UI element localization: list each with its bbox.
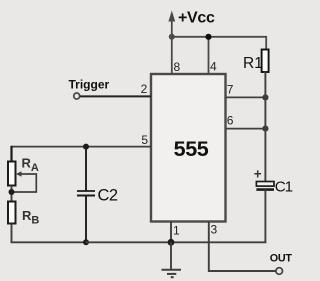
wire pin 5 rail (left rail top to IC) bbox=[12, 146, 152, 148]
wire left rail (pin5 corner to RA) bbox=[10, 146, 12, 162]
wire left rail (RA to RB) bbox=[11, 186, 13, 202]
terminal OUT bbox=[276, 268, 283, 275]
ground bbox=[162, 242, 182, 277]
junction dot pin 6 bbox=[262, 126, 268, 132]
svg-text:4: 4 bbox=[210, 60, 217, 74]
svg-text:7: 7 bbox=[227, 83, 234, 97]
wire Vcc horizontal to R1 bbox=[172, 37, 266, 50]
svg-text:Trigger: Trigger bbox=[69, 78, 110, 92]
svg-text:+: + bbox=[254, 167, 262, 182]
junction dot Vcc/pin8 bbox=[169, 34, 175, 40]
terminal Trigger bbox=[74, 93, 80, 99]
wire pin 2 (Trigger to IC) bbox=[80, 95, 151, 97]
wire right rail (C1 to ground rail) bbox=[264, 190, 266, 243]
svg-text:6: 6 bbox=[227, 114, 234, 128]
resistor RA (potentiometer) bbox=[8, 162, 16, 186]
power +Vcc terminal bbox=[168, 11, 175, 38]
wire pin 3 to OUT bbox=[209, 222, 276, 272]
svg-text:1: 1 bbox=[173, 224, 180, 238]
capacitor C2 bbox=[77, 191, 95, 196]
capacitor C1 (polarized) bbox=[254, 167, 274, 190]
wire right rail (R1 to C1) bbox=[264, 72, 266, 182]
svg-text:5: 5 bbox=[141, 133, 148, 147]
wiper arrow RA bbox=[13, 171, 36, 192]
svg-text:+Vcc: +Vcc bbox=[178, 9, 215, 26]
wire C2 branch bottom bbox=[85, 196, 87, 243]
resistor R1 bbox=[262, 50, 269, 73]
svg-text:C1: C1 bbox=[275, 179, 293, 196]
svg-text:555: 555 bbox=[174, 137, 209, 161]
svg-text:8: 8 bbox=[174, 60, 181, 74]
junction dot RA wiper / RB bbox=[9, 189, 15, 195]
svg-text:C2: C2 bbox=[98, 186, 118, 204]
svg-text:R1: R1 bbox=[243, 55, 263, 72]
wire pin 8 (Vcc to IC) bbox=[171, 37, 173, 74]
svg-text:3: 3 bbox=[211, 223, 218, 237]
junction dot pin 7 bbox=[262, 94, 268, 100]
wire pin 4 (Vcc to IC) bbox=[208, 37, 210, 74]
resistor RB bbox=[8, 202, 16, 224]
wire pin 1 (IC to ground rail) bbox=[170, 222, 172, 243]
junction dot Vcc/pin4 bbox=[205, 34, 211, 40]
wire bottom ground rail bbox=[86, 241, 266, 243]
wire left rail (RB to bottom rail) bbox=[12, 224, 88, 243]
wire pin 7 (IC to right rail) bbox=[226, 96, 265, 98]
IC U1 555 timer bbox=[151, 74, 226, 222]
wire C2 branch top bbox=[85, 147, 87, 191]
svg-text:2: 2 bbox=[141, 82, 148, 96]
junction dot C2 top bbox=[83, 144, 89, 150]
wire pin 6 (IC to right rail) bbox=[226, 128, 265, 130]
junction dot C2 bottom bbox=[83, 239, 89, 245]
junction dot pin1/ground bbox=[168, 239, 175, 246]
svg-text:OUT: OUT bbox=[270, 253, 293, 265]
